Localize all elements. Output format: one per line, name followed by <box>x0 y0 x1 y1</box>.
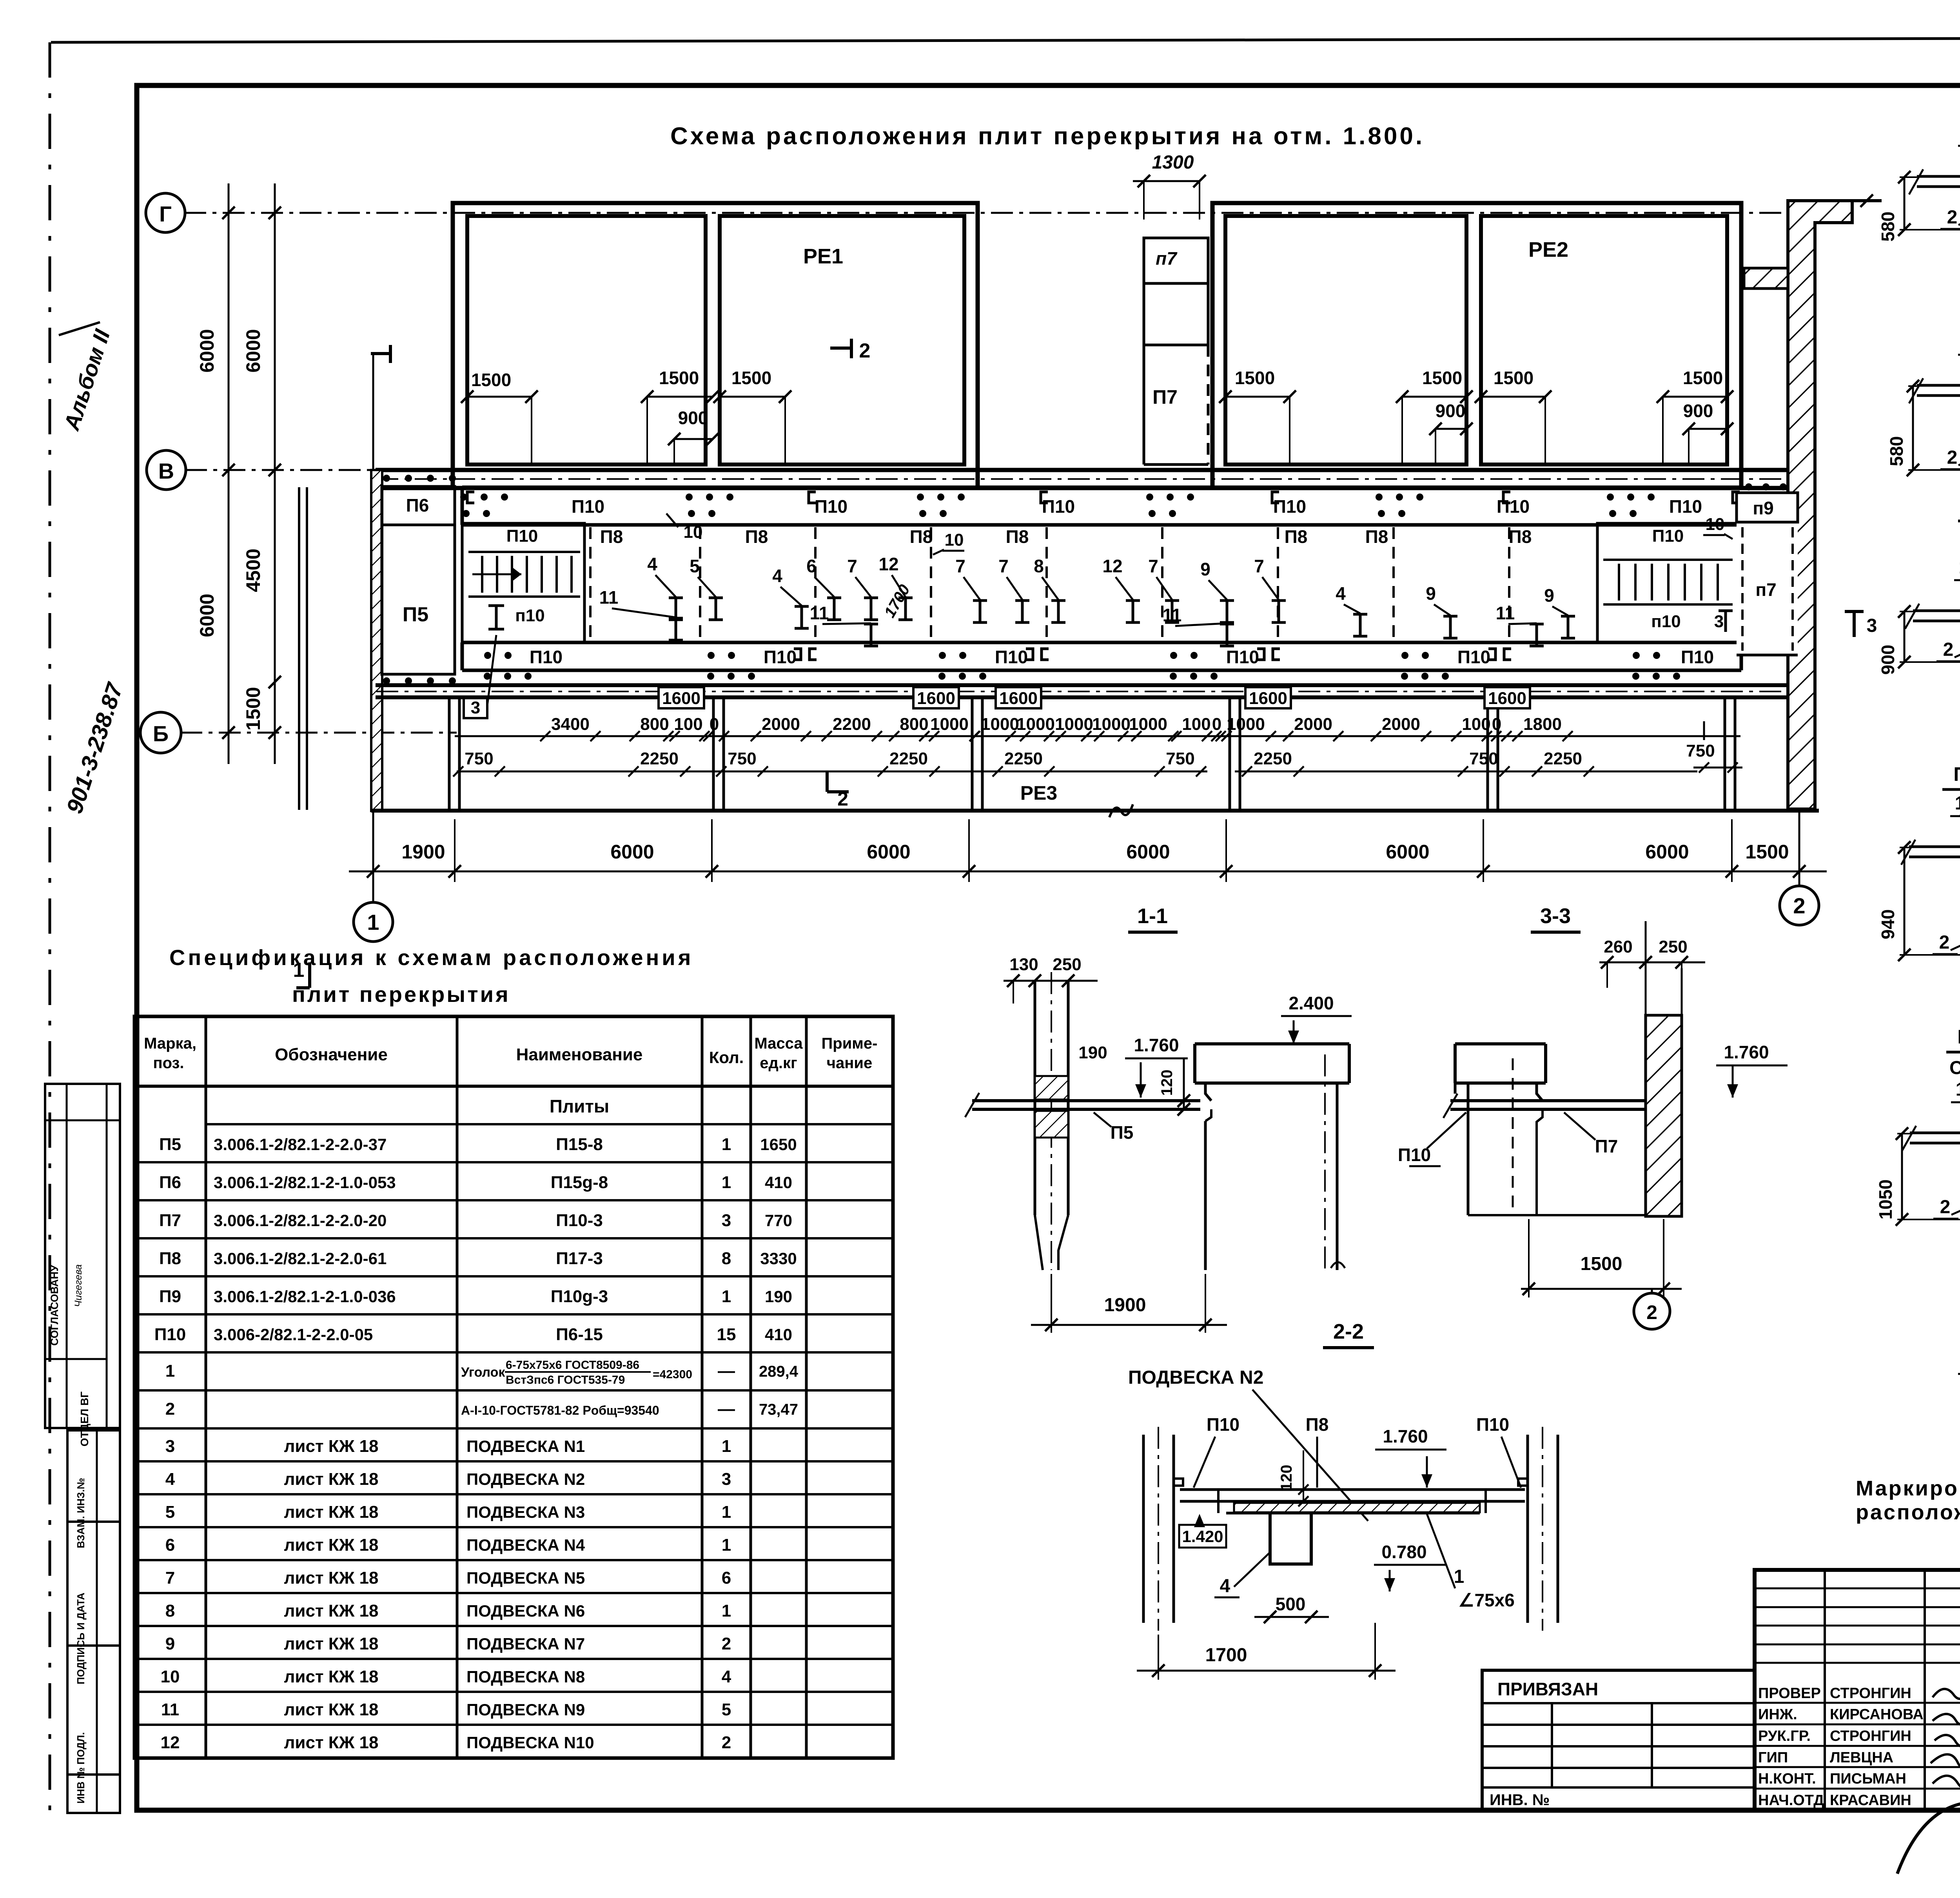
svg-text:1600: 1600 <box>999 689 1038 708</box>
callout 11 <box>810 603 878 646</box>
svg-text:ПРИВЯЗАН: ПРИВЯЗАН <box>1497 1679 1598 1699</box>
svg-text:п10: п10 <box>1651 612 1681 631</box>
svg-text:СТРОНГИН: СТРОНГИН <box>1830 1685 1911 1702</box>
svg-text:410: 410 <box>765 1173 792 1192</box>
svg-text:1000: 1000 <box>1092 715 1131 734</box>
callout 10 right <box>1703 515 1733 539</box>
svg-text:1: 1 <box>722 1437 731 1456</box>
spec row П9 <box>159 1287 792 1306</box>
svg-text:1600: 1600 <box>917 689 955 708</box>
svg-text:ПОДВЕСКА N8: ПОДВЕСКА N8 <box>466 1668 585 1686</box>
signatures scribbles <box>1897 1688 1960 1874</box>
3-3 grid circle 2 <box>1634 1289 1670 1329</box>
svg-text:П10: П10 <box>1457 647 1490 667</box>
svg-text:п7: п7 <box>1156 248 1178 269</box>
svg-text:1800: 1800 <box>1523 715 1562 734</box>
svg-text:1: 1 <box>1956 1079 1960 1100</box>
1-1 dim 2.400 <box>1281 993 1352 1044</box>
dots row above П6 <box>383 475 456 482</box>
svg-text:2: 2 <box>859 339 871 362</box>
svg-text:П10: П10 <box>764 647 797 667</box>
svg-text:П8: П8 <box>1365 526 1388 547</box>
callout 9 <box>1544 585 1575 638</box>
svg-text:4: 4 <box>772 566 782 586</box>
svg-text:1.760: 1.760 <box>1383 1426 1428 1446</box>
svg-text:2: 2 <box>165 1399 175 1419</box>
svg-text:7: 7 <box>998 556 1009 576</box>
svg-text:800: 800 <box>640 715 669 734</box>
section 3-3 title <box>1531 904 1581 932</box>
spec row 9 подвеска N7 <box>165 1634 731 1653</box>
dim box 1600 <box>1485 687 1530 708</box>
svg-text:0: 0 <box>1492 715 1501 734</box>
svg-text:Марка,: Марка, <box>144 1035 196 1052</box>
svg-text:1900: 1900 <box>401 841 445 863</box>
2-2 dim 120 <box>1278 1450 1308 1506</box>
svg-text:0.780: 0.780 <box>1381 1542 1426 1562</box>
callout 12 <box>1102 556 1140 622</box>
callout 11 <box>599 587 683 640</box>
spec row П6 <box>159 1173 792 1192</box>
grid line 1 <box>372 354 374 902</box>
svg-text:ПОДВЕСКА N2: ПОДВЕСКА N2 <box>466 1470 585 1488</box>
grid circle 1 <box>354 902 393 942</box>
svg-text:П8: П8 <box>600 526 623 547</box>
2-2 left wall <box>1143 1427 1183 1631</box>
svg-text:С18: С18 <box>1949 1058 1960 1078</box>
svg-text:1: 1 <box>1955 793 1960 814</box>
svg-text:1.760: 1.760 <box>1134 1035 1179 1055</box>
svg-text:9: 9 <box>1544 585 1554 606</box>
svg-text:лист КЖ 18: лист КЖ 18 <box>284 1535 378 1555</box>
svg-text:ГИП: ГИП <box>1758 1749 1788 1766</box>
svg-text:2: 2 <box>1947 207 1958 228</box>
svg-text:2: 2 <box>1646 1301 1657 1323</box>
title block outer <box>1755 1570 1960 1810</box>
spec table heading <box>169 945 693 1007</box>
svg-text:5: 5 <box>722 1700 731 1719</box>
svg-text:5: 5 <box>165 1502 175 1522</box>
spec row 5 подвеска N3 <box>165 1502 731 1522</box>
svg-text:П10: П10 <box>995 647 1028 667</box>
svg-text:ПИСЬМАН: ПИСЬМАН <box>1830 1771 1906 1787</box>
П5 plate box <box>382 525 455 674</box>
svg-text:П10: П10 <box>1226 647 1259 667</box>
spec row 12 подвеска N10 <box>161 1733 731 1752</box>
svg-text:П8: П8 <box>745 526 768 547</box>
svg-text:7: 7 <box>1148 556 1158 576</box>
svg-text:3330: 3330 <box>760 1249 797 1268</box>
svg-text:ПОДВЕСКА N10: ПОДВЕСКА N10 <box>466 1733 594 1752</box>
svg-text:П8: П8 <box>1285 526 1308 547</box>
callout 8 <box>1034 556 1065 622</box>
2-2 dim 1700 <box>1137 1623 1396 1680</box>
spec row 11 подвеска N9 <box>161 1700 731 1719</box>
svg-text:3.006.1-2/82.1-2-1.0-036: 3.006.1-2/82.1-2-1.0-036 <box>214 1287 396 1306</box>
2-2 dim 1.760 <box>1375 1426 1446 1488</box>
svg-text:2: 2 <box>722 1634 731 1653</box>
spec row 3 подвеска N1 <box>165 1437 731 1456</box>
svg-text:1500: 1500 <box>659 368 699 388</box>
title block left small rows <box>1755 1570 1960 1810</box>
svg-text:3: 3 <box>722 1211 731 1230</box>
svg-text:11: 11 <box>1496 603 1515 623</box>
svg-text:900: 900 <box>1436 401 1466 421</box>
2-2 label Подвеска N2 <box>1128 1367 1368 1521</box>
svg-text:П6: П6 <box>406 495 429 515</box>
РЕ2 pane 4 inner wall <box>1481 216 1727 465</box>
section mark 1 bottom <box>293 959 310 988</box>
plate dimension row (750 / 2250 ...) <box>453 749 1697 777</box>
svg-text:П8: П8 <box>1509 526 1532 547</box>
1-1 dims 130 250 <box>1004 955 1098 1003</box>
top right hatched wall step <box>1788 194 1882 809</box>
svg-text:1-1: 1-1 <box>1137 904 1168 928</box>
svg-text:2: 2 <box>1939 932 1950 953</box>
svg-text:2: 2 <box>1943 639 1954 660</box>
svg-text:800: 800 <box>900 715 928 734</box>
2-2 callout 4 <box>1214 1552 1270 1597</box>
svg-text:СТРОНГИН: СТРОНГИН <box>1830 1728 1911 1744</box>
svg-text:3: 3 <box>1867 615 1877 636</box>
svg-text:6000: 6000 <box>610 841 654 863</box>
svg-text:П10: П10 <box>572 496 604 517</box>
svg-text:4500: 4500 <box>242 548 264 592</box>
svg-text:900: 900 <box>1683 401 1713 421</box>
svg-text:6-75х75х6 ГОСТ8509-86: 6-75х75х6 ГОСТ8509-86 <box>506 1359 639 1372</box>
svg-text:9: 9 <box>1426 583 1436 604</box>
svg-text:6: 6 <box>806 556 817 576</box>
svg-text:1500: 1500 <box>1235 368 1275 388</box>
svg-text:7: 7 <box>1254 556 1264 576</box>
break wave <box>1109 804 1133 817</box>
svg-text:1500: 1500 <box>1683 368 1723 388</box>
svg-text:лист КЖ 18: лист КЖ 18 <box>284 1733 378 1752</box>
3-3 dim 1.760 <box>1716 1042 1788 1098</box>
spec row П5 <box>159 1135 797 1154</box>
1-1 left wall <box>1035 972 1068 1270</box>
svg-text:ИНВ № ПОДЛ.: ИНВ № ПОДЛ. <box>75 1732 87 1804</box>
svg-text:РУК.ГР.: РУК.ГР. <box>1758 1728 1811 1744</box>
svg-text:лист КЖ 18: лист КЖ 18 <box>284 1470 378 1489</box>
bottom dim chain 1900/6000x5/1500 <box>349 819 1827 882</box>
detail а-а <box>1958 1269 1960 1414</box>
svg-text:2000: 2000 <box>1382 715 1420 734</box>
svg-text:940: 940 <box>1878 909 1898 940</box>
spec row 6 подвеска N4 <box>165 1535 731 1555</box>
svg-text:чание: чание <box>827 1054 872 1072</box>
dim 750 right end <box>1686 721 1742 773</box>
svg-text:лист КЖ 18: лист КЖ 18 <box>284 1601 378 1620</box>
svg-text:2250: 2250 <box>640 749 679 768</box>
grid line 2 <box>1798 710 1800 887</box>
svg-text:900: 900 <box>678 408 708 428</box>
svg-text:РЕ1: РЕ1 <box>803 245 843 268</box>
left hatched wall <box>371 470 382 811</box>
svg-text:РЕ3: РЕ3 <box>1020 782 1058 804</box>
svg-text:100: 100 <box>674 715 702 734</box>
plate dimension row (3400 / 800 / 100 ...) <box>455 715 1740 741</box>
1-1 right tank wall <box>1195 1044 1349 1270</box>
svg-text:9: 9 <box>165 1634 175 1653</box>
section 2-2 title <box>1323 1320 1374 1348</box>
2-2 dim 500 <box>1254 1594 1329 1623</box>
spec row 10 подвеска N8 <box>161 1667 731 1686</box>
svg-text:лист КЖ 18: лист КЖ 18 <box>284 1634 378 1653</box>
svg-text:3: 3 <box>165 1437 175 1456</box>
section 1-1 cut line left <box>299 487 307 810</box>
callout 12 <box>878 554 913 620</box>
svg-text:580: 580 <box>1878 212 1898 242</box>
tank group РЕ1 outer wall <box>453 203 978 488</box>
svg-text:289,4: 289,4 <box>759 1363 799 1380</box>
svg-text:Чигегева: Чигегева <box>73 1264 84 1307</box>
main title: Схема расположения плит перекрытия на отм. 1.800. <box>670 123 1425 150</box>
spec row П10 <box>154 1325 792 1344</box>
svg-text:4: 4 <box>722 1667 731 1686</box>
svg-text:100: 100 <box>1462 715 1490 734</box>
svg-text:ОТДЕЛ ВГ: ОТДЕЛ ВГ <box>78 1392 91 1446</box>
svg-text:Маркировка подвесок дана: Маркировка подвесок дана на схеме <box>1856 1477 1960 1500</box>
svg-text:лист КЖ 18: лист КЖ 18 <box>284 1568 378 1588</box>
svg-text:3: 3 <box>722 1470 731 1489</box>
stair opening box right <box>1597 523 1741 642</box>
dim 1500 tank pane2 left <box>641 368 719 463</box>
section mark 3 right <box>1845 611 1877 637</box>
margin label: 901-3-238.87 <box>62 679 128 817</box>
svg-text:190: 190 <box>765 1287 792 1306</box>
svg-text:2200: 2200 <box>833 715 871 734</box>
dim 1500 tank pane1 <box>461 370 538 463</box>
П6 plate box <box>382 486 455 525</box>
2-2 plate assembly <box>1180 1490 1525 1564</box>
callout 11 <box>1163 605 1234 646</box>
svg-text:П9: П9 <box>159 1287 181 1306</box>
svg-text:9: 9 <box>1200 559 1210 579</box>
svg-text:3.006.1-2/82.1-2-1.0-053: 3.006.1-2/82.1-2-1.0-053 <box>214 1173 396 1192</box>
svg-text:П10: П10 <box>1497 496 1530 517</box>
svg-text:лист КЖ 18: лист КЖ 18 <box>284 1700 378 1719</box>
svg-text:1: 1 <box>722 1502 731 1522</box>
dim 1500 pane3 left <box>1219 368 1296 463</box>
svg-text:0: 0 <box>1212 715 1221 734</box>
svg-text:ПОДВЕСКА N3: ПОДВЕСКА N3 <box>466 1503 585 1521</box>
svg-text:4: 4 <box>1220 1576 1230 1597</box>
3-3 left tank wall <box>1455 1044 1546 1215</box>
grid circle 2 <box>1780 886 1819 925</box>
grid circle Б <box>140 712 181 753</box>
svg-text:410: 410 <box>765 1325 792 1344</box>
svg-text:Масса: Масса <box>754 1035 803 1052</box>
svg-text:2250: 2250 <box>1254 749 1292 768</box>
svg-text:—: — <box>718 1399 735 1419</box>
svg-text:770: 770 <box>765 1211 792 1230</box>
callout 6 <box>806 556 841 620</box>
lower wall band <box>376 685 1815 697</box>
callout 3 right <box>1714 611 1733 632</box>
svg-text:500: 500 <box>1276 1594 1306 1614</box>
svg-text:П17-3: П17-3 <box>556 1249 603 1268</box>
svg-text:КРАСАВИН: КРАСАВИН <box>1830 1792 1911 1809</box>
svg-text:6000: 6000 <box>867 841 910 863</box>
sheet outer top edge line <box>51 37 1960 42</box>
РЕ1 pane 1 inner wall <box>467 216 706 465</box>
svg-text:1000: 1000 <box>1055 715 1093 734</box>
svg-text:2000: 2000 <box>762 715 800 734</box>
svg-text:1: 1 <box>722 1535 731 1555</box>
svg-text:1000: 1000 <box>1016 715 1055 734</box>
detail Подвеска N9 <box>1875 1026 1960 1256</box>
РЕ3 strip outline <box>371 697 1819 811</box>
margin box: Взам. инв. N / Подпись и дата / Инв N подл. <box>67 1430 120 1813</box>
svg-text:1900: 1900 <box>1104 1295 1146 1316</box>
svg-text:поз.: поз. <box>153 1054 184 1072</box>
svg-text:П6: П6 <box>159 1173 181 1192</box>
svg-text:2: 2 <box>1793 893 1805 918</box>
dim box 1600 <box>659 687 704 708</box>
svg-text:1: 1 <box>722 1135 731 1154</box>
svg-text:П10: П10 <box>1652 526 1684 546</box>
svg-text:П7: П7 <box>1152 386 1178 408</box>
svg-text:1: 1 <box>165 1361 175 1381</box>
svg-text:1: 1 <box>722 1601 731 1620</box>
1-1 floor plate <box>965 1093 1200 1117</box>
svg-text:1050: 1050 <box>1875 1179 1896 1219</box>
callout 4 <box>772 566 809 628</box>
detail Подвеска N3 <box>1886 283 1960 497</box>
2-2 dim 1.420 <box>1179 1514 1226 1548</box>
svg-text:2000: 2000 <box>1294 715 1332 734</box>
svg-text:7: 7 <box>165 1568 175 1588</box>
svg-text:1700: 1700 <box>1205 1645 1247 1666</box>
svg-text:3: 3 <box>1714 612 1724 631</box>
section mark 2 bottom <box>827 771 849 810</box>
svg-text:лист КЖ 18: лист КЖ 18 <box>284 1437 378 1456</box>
svg-text:П6-15: П6-15 <box>556 1325 603 1344</box>
stair symbol right <box>1603 560 1733 604</box>
svg-text:15: 15 <box>717 1325 736 1344</box>
stair opening box left <box>462 523 584 642</box>
svg-text:10: 10 <box>945 530 964 550</box>
dots row below П5 <box>383 677 456 684</box>
2-2 callout 1 and L75x6 <box>1427 1514 1515 1610</box>
3-3 right hatched wall <box>1646 921 1682 1216</box>
dim box 1600 <box>1245 687 1291 708</box>
svg-text:1500: 1500 <box>1745 841 1789 863</box>
svg-text:11: 11 <box>810 603 829 623</box>
margin label: Альбом II <box>59 322 115 434</box>
svg-text:6: 6 <box>722 1568 731 1588</box>
tank group РЕ2 outer wall <box>1212 203 1741 488</box>
svg-text:250: 250 <box>1053 955 1081 974</box>
svg-text:8: 8 <box>165 1601 175 1620</box>
svg-text:Кол.: Кол. <box>709 1048 744 1067</box>
svg-text:1500: 1500 <box>471 370 511 390</box>
callout 11 <box>1496 603 1544 646</box>
callout 9 <box>1426 583 1457 638</box>
left dim line (6000 / 4500 / 1500) <box>242 183 281 764</box>
svg-text:6000: 6000 <box>242 329 264 372</box>
svg-text:Подвеска N7: Подвеска N7 <box>1953 763 1960 785</box>
svg-text:120: 120 <box>1158 1070 1176 1096</box>
svg-text:8: 8 <box>722 1249 731 1268</box>
sheet outer left dash-dot edge line <box>49 42 51 1819</box>
spec table header texts <box>144 1035 877 1072</box>
callout 10 middle <box>933 530 964 555</box>
I-beam mark at П10 left <box>488 606 504 629</box>
П8 plate field dashed joints <box>590 527 1597 639</box>
svg-text:1000: 1000 <box>930 715 969 734</box>
svg-text:ИНВ. №: ИНВ. № <box>1490 1791 1550 1809</box>
svg-text:п10: п10 <box>515 606 545 625</box>
РЕ2 pane 3 inner wall <box>1225 216 1466 465</box>
svg-text:Схема расположения плит: Схема расположения плит перекрытия на от… <box>670 123 1425 150</box>
svg-text:7: 7 <box>955 556 965 576</box>
svg-text:расположения плит пере: расположения плит перекрытия. <box>1856 1501 1960 1524</box>
svg-text:100: 100 <box>1182 715 1210 734</box>
svg-text:2: 2 <box>1947 447 1958 468</box>
svg-text:—: — <box>718 1361 735 1381</box>
svg-text:КИРСАНОВА: КИРСАНОВА <box>1830 1706 1924 1723</box>
svg-text:ПОДВЕСКА N5: ПОДВЕСКА N5 <box>466 1569 585 1587</box>
svg-text:Г: Г <box>159 201 172 226</box>
svg-text:6: 6 <box>165 1535 175 1555</box>
svg-text:12: 12 <box>161 1733 180 1752</box>
svg-text:12: 12 <box>1102 556 1122 576</box>
svg-text:1500: 1500 <box>1494 368 1534 388</box>
svg-text:1.420: 1.420 <box>1182 1527 1223 1546</box>
callout 9 <box>1200 559 1234 622</box>
svg-text:1.760: 1.760 <box>1724 1042 1769 1062</box>
svg-text:ПОДВЕСКА N6: ПОДВЕСКА N6 <box>466 1602 585 1620</box>
svg-text:8: 8 <box>1034 556 1044 576</box>
svg-text:ПРОВЕР: ПРОВЕР <box>1758 1685 1821 1702</box>
svg-text:3.006-2/82.1-2-2.0-05: 3.006-2/82.1-2-2.0-05 <box>214 1325 373 1344</box>
callout 7 <box>847 556 878 620</box>
svg-text:3.006.1-2/82.1-2-2.0-61: 3.006.1-2/82.1-2-2.0-61 <box>214 1249 387 1268</box>
note Маркировка подвесок <box>1856 1477 1960 1524</box>
left dim line (6000 / 6000) <box>196 183 235 764</box>
svg-text:НАЧ.ОТД: НАЧ.ОТД <box>1758 1792 1824 1809</box>
label РЕ3 <box>1020 782 1058 804</box>
grid line В <box>185 469 376 471</box>
callout 5 <box>690 556 723 620</box>
dim 1500 pane3 right <box>1396 368 1473 463</box>
svg-text:Б: Б <box>153 721 169 746</box>
dim 1500 pane4 right <box>1657 368 1733 463</box>
spec row 7 подвеска N5 <box>165 1568 731 1588</box>
svg-text:120: 120 <box>1278 1465 1295 1491</box>
spec table grid <box>134 1016 893 1758</box>
dim 900 pane4 <box>1682 401 1733 463</box>
svg-text:П5: П5 <box>403 603 428 626</box>
3-3 bottom line and dim 1500 <box>1468 1215 1682 1297</box>
svg-text:1600: 1600 <box>1488 689 1526 708</box>
callout 3 boxed bottom left <box>464 635 496 718</box>
svg-text:П10: П10 <box>154 1325 186 1344</box>
svg-text:1: 1 <box>722 1173 731 1192</box>
П7 plate box right <box>1737 522 1798 655</box>
svg-text:Н.КОНТ.: Н.КОНТ. <box>1758 1771 1816 1787</box>
svg-text:лист КЖ 18: лист КЖ 18 <box>284 1667 378 1686</box>
callout 7 <box>955 556 987 622</box>
detail Подвеска N7 <box>1878 763 1960 982</box>
detail Подвеска N1 <box>1878 89 1960 256</box>
svg-text:П10: П10 <box>1042 496 1075 517</box>
svg-text:6000: 6000 <box>196 329 218 372</box>
svg-text:ед.кг: ед.кг <box>760 1054 797 1072</box>
grid line Б <box>180 732 457 734</box>
